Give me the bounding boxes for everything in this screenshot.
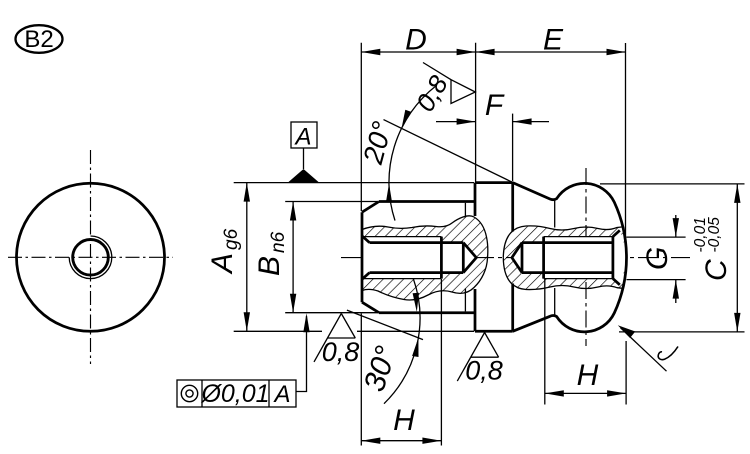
dimension B n6 bbox=[285, 202, 377, 313]
concentricity tolerance frame bbox=[177, 313, 310, 407]
svg-text:C: C bbox=[700, 259, 733, 281]
svg-text:B2: B2 bbox=[24, 26, 53, 53]
left bore: minor walls bbox=[370, 241, 464, 244]
20 degree angle: reference line bbox=[384, 120, 514, 183]
right bore: thread major lines bbox=[544, 236, 613, 238]
right bore: drill end and cone bbox=[521, 243, 524, 273]
section view: ball vertical centerline bbox=[585, 168, 587, 346]
svg-text:30°: 30° bbox=[358, 342, 403, 395]
dimension E bbox=[476, 43, 626, 240]
right breakout hatch region bbox=[503, 226, 626, 290]
svg-text:D: D bbox=[405, 24, 427, 57]
svg-text:H: H bbox=[393, 404, 415, 437]
sphere-neck junction line top bbox=[554, 201, 556, 228]
front view: outer circle bbox=[17, 183, 165, 331]
svg-text:H: H bbox=[577, 359, 599, 392]
svg-text:0,8: 0,8 bbox=[465, 356, 503, 386]
left bore: thread major lines bbox=[362, 236, 441, 238]
right bore: minor walls bbox=[522, 241, 613, 244]
body outline: left cylinder bbox=[362, 202, 475, 313]
svg-text:0,8: 0,8 bbox=[322, 337, 360, 367]
dimension C with tolerance bbox=[600, 184, 745, 332]
surface finish 0,8 (middle bottom) bbox=[457, 333, 498, 382]
svg-text:G: G bbox=[641, 247, 674, 270]
30 degree label bbox=[358, 342, 403, 395]
svg-text:n6: n6 bbox=[268, 231, 289, 253]
left bore: drill end and cone bbox=[462, 243, 465, 273]
dimension H (thread depth, right) bbox=[545, 279, 626, 405]
dimension G bbox=[627, 215, 686, 303]
svg-text:A: A bbox=[272, 381, 290, 408]
dimension A g6 bbox=[234, 183, 474, 332]
svg-text:Ø0,01: Ø0,01 bbox=[200, 380, 269, 408]
body outline: collar bbox=[475, 183, 513, 332]
edge leader with hook symbol at ball bbox=[618, 325, 678, 371]
front view: horizontal centerline bbox=[8, 256, 173, 258]
svg-text:g6: g6 bbox=[221, 228, 242, 250]
svg-text:B: B bbox=[253, 256, 286, 276]
right bore: entrance line and countersink bbox=[612, 237, 615, 279]
body outline: tapered neck and ball bbox=[513, 183, 627, 332]
20 degree angle: arc with arrows bbox=[389, 86, 436, 221]
svg-text:A: A bbox=[293, 124, 311, 151]
svg-text:E: E bbox=[543, 24, 564, 57]
svg-text:A: A bbox=[206, 253, 239, 275]
svg-text:F: F bbox=[485, 89, 505, 122]
right bore: thread end line bbox=[542, 237, 545, 279]
surface finish 0,8 (top, rotated) bbox=[423, 63, 475, 104]
groove line on cylinder bbox=[464, 203, 466, 218]
30 degree angle: arc with arrows bbox=[384, 278, 420, 403]
left bore: entrance chamfer bbox=[362, 236, 370, 243]
svg-text:-0,05: -0,05 bbox=[706, 217, 723, 253]
sphere-neck junction line bottom bbox=[554, 288, 556, 315]
surface finish 0,8 (left bottom) bbox=[314, 314, 355, 362]
30 degree angle: reference line bbox=[347, 310, 423, 340]
front view: vertical centerline bbox=[90, 150, 92, 364]
dimension F bbox=[436, 114, 549, 181]
left breakout hatch region bbox=[362, 216, 488, 300]
B2 form label bbox=[16, 25, 63, 53]
20 degree label bbox=[357, 118, 398, 168]
dimension H (thread depth, left) bbox=[361, 279, 441, 446]
front view: counterbore circle bbox=[73, 239, 109, 275]
section view: horizontal axis centerline bbox=[341, 257, 690, 259]
dimension D bbox=[361, 43, 625, 211]
datum A flag bbox=[289, 122, 319, 182]
svg-text:20°: 20° bbox=[357, 118, 398, 168]
left bore: thread end line bbox=[440, 237, 443, 279]
front view: thread major arc bbox=[69, 236, 112, 279]
